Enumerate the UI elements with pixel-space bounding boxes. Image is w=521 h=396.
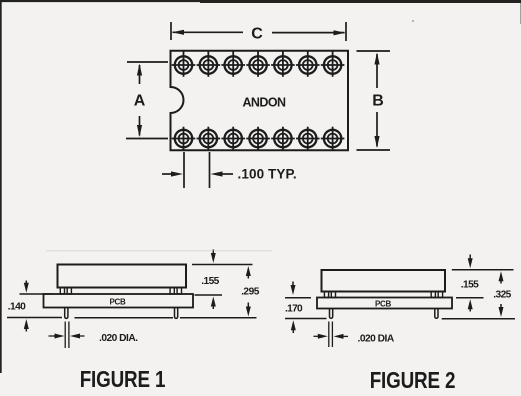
fig2 PCB label [375,299,392,308]
pin 5 top row (crosshair contact) [271,51,295,77]
fig2 dim .020 DIA [314,322,349,348]
pin 3 bottom row (crosshair contact) [221,127,245,150]
fig2 right pin lead [435,309,438,319]
fig2 left pin lead [330,309,333,319]
svg-text:.020 DIA.: .020 DIA. [99,333,138,344]
page left border [0,0,2,373]
fig2 label .325 [493,290,511,301]
pin 4 top row (crosshair contact) [246,51,270,77]
fig1 label .295 [241,286,260,297]
svg-text:.020 DIA: .020 DIA [358,334,395,345]
svg-text:.325: .325 [493,290,511,301]
svg-text:C: C [251,26,263,43]
socket body outline (top view) [171,51,349,151]
fig2 standoff feet [324,292,442,298]
fig1 dim .020 DIA [49,322,85,349]
pin 3 top row (crosshair contact) [221,51,245,77]
fig1 label .140 [8,302,27,313]
fig2 PCB bar [317,298,452,309]
fig2 dim .155 [452,255,514,312]
svg-text:ANDON: ANDON [242,96,286,110]
pin pitch extension lines [184,152,210,188]
pin 2 top row (crosshair contact) [197,51,221,77]
scan speck [412,20,414,22]
FIGURE 2 caption [370,368,456,393]
fig1 PCB label [110,297,127,306]
fig2 socket body side view [322,270,446,292]
dimension B [357,51,391,150]
pin 4 bottom row (crosshair contact) [246,127,270,150]
fig2 dim .170 arrows and lines [285,282,327,334]
page right edge sliver [520,3,521,24]
pin 7 top row (crosshair contact) [321,51,345,77]
svg-text:.100 TYP.: .100 TYP. [238,167,297,182]
svg-text:FIGURE 2: FIGURE 2 [370,368,456,393]
pin 2 bottom row (crosshair contact) [197,127,221,150]
pin 6 bottom row (crosshair contact) [296,127,320,150]
fig1 label .020 DIA. [99,333,138,344]
fig2 label .020 DIA [358,334,395,345]
svg-text:PCB: PCB [375,299,392,308]
svg-text:FIGURE 1: FIGURE 1 [80,368,166,393]
ANDON label [242,96,286,110]
pin 1 top row (crosshair contact) [172,51,196,77]
dimension A label [134,93,146,110]
fig1 right pin lead [175,308,178,319]
svg-text:.155: .155 [201,276,219,287]
fig1 dim .140 arrows and lines [7,281,62,332]
fig1 dim .155 [192,250,253,310]
svg-text:PCB: PCB [110,297,127,306]
svg-text:.170: .170 [285,304,303,315]
fig1 left pin lead [65,308,68,319]
fig2 label .170 [285,304,303,315]
FIGURE 1 caption [80,368,166,393]
fig2 label .155 [461,280,479,291]
svg-text:B: B [372,93,384,110]
fig1 PCB bar [44,294,194,308]
fig2 dim .325 [442,271,515,319]
scan streak artifact [46,250,272,252]
fig1 dim .295 [75,266,257,318]
pin 6 top row (crosshair contact) [296,51,320,77]
pin pitch arrows [162,171,233,176]
dimension C label [251,26,263,43]
page top border [0,0,521,3]
svg-text:.140: .140 [8,302,27,313]
pin 5 bottom row (crosshair contact) [271,127,295,150]
svg-text:A: A [134,93,146,110]
pin 7 bottom row (crosshair contact) [321,127,345,150]
svg-text:.155: .155 [461,280,479,291]
dimension A [126,62,168,139]
fig1 label .155 [201,276,219,287]
fig1 socket body side view [58,265,187,288]
fig1 standoff feet [60,288,181,295]
dimension C [171,22,346,41]
dimension B label [372,93,384,110]
pin 1 bottom row (crosshair contact) [172,127,196,150]
pin pitch label .100 TYP. [238,167,297,182]
svg-text:.295: .295 [241,286,260,297]
